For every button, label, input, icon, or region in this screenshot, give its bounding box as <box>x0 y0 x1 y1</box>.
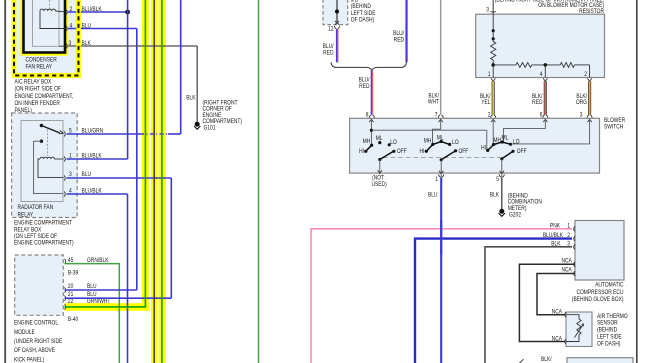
svg-text:6: 6 <box>540 112 543 119</box>
svg-text:COMPRESSOR ECU: COMPRESSOR ECU <box>576 289 623 296</box>
switch C bottom pin arrow <box>500 171 504 174</box>
resistor element vertical <box>492 39 494 42</box>
switch B arm pivot-OFF <box>441 151 455 160</box>
wire BLU vertical x136 to ECM pin 20 <box>136 29 138 291</box>
blower pin 8 wing <box>369 115 374 118</box>
wire BLU/RED from pin 12 <box>336 29 338 62</box>
svg-text:OF DASH): OF DASH) <box>351 17 374 24</box>
wire BLU vertical x171 to ECM pin 21 <box>170 178 172 298</box>
svg-text:PNK: PNK <box>550 223 560 230</box>
switch B contact HI <box>425 150 428 153</box>
blower pin 3 entry arrow <box>587 119 591 122</box>
engine control module box (dashed) <box>15 255 64 315</box>
svg-text:BLU/BLK: BLU/BLK <box>82 153 102 160</box>
svg-text:2: 2 <box>567 233 570 240</box>
svg-text:OF DASH, ABOVE: OF DASH, ABOVE <box>14 348 55 355</box>
svg-text:MODULE: MODULE <box>14 329 35 336</box>
wire BLU radiator pin 3 <box>67 177 172 179</box>
svg-text:SWITCH: SWITCH <box>604 124 623 131</box>
blower pin 2 entry arrow <box>491 119 495 122</box>
svg-text:OFF: OFF <box>517 149 527 156</box>
svg-text:RED: RED <box>359 84 369 91</box>
svg-text:SENSOR: SENSOR <box>597 320 618 327</box>
wire BLK/WHT to blower pin 7 <box>440 0 442 115</box>
svg-text:4: 4 <box>540 71 543 78</box>
switch C arm pivot-OFF <box>502 151 513 159</box>
radiator fan relay armature link (dashed) <box>47 130 49 157</box>
wire NCA lower <box>537 274 575 315</box>
svg-text:RED: RED <box>394 37 404 44</box>
svg-text:ENGINE COMPARTMENT: ENGINE COMPARTMENT <box>14 220 72 227</box>
svg-text:LO: LO <box>452 140 459 147</box>
switch C contact OFF <box>511 150 514 153</box>
svg-text:21: 21 <box>68 292 73 299</box>
blower feed drop to HI C <box>486 130 488 150</box>
svg-text:HI: HI <box>420 148 425 155</box>
radiator fan relay inner case <box>21 121 63 202</box>
svg-text:(BEHIND: (BEHIND <box>597 327 617 334</box>
blower feed bus <box>371 129 486 131</box>
svg-text:1: 1 <box>567 223 570 230</box>
resistor element R1 <box>516 63 532 68</box>
wire BLU/BLK vertical x127 to bottom <box>127 194 129 363</box>
automatic compressor ECU box <box>575 221 624 281</box>
switch C pivot <box>500 157 503 160</box>
condenser fan relay coil <box>40 9 56 11</box>
svg-text:BLU: BLU <box>82 23 92 30</box>
svg-text:HI: HI <box>481 145 486 152</box>
svg-text:5: 5 <box>496 177 499 184</box>
svg-text:BLK/: BLK/ <box>541 357 552 363</box>
svg-text:RESISTOR: RESISTOR <box>579 8 604 15</box>
switch B arm HI-MH <box>426 144 433 151</box>
wire BLK to ECU pin 3 <box>485 247 572 363</box>
clipped connector pin mark <box>519 359 524 363</box>
svg-text:OFF: OFF <box>459 149 469 156</box>
condenser fan relay pin 3 bracket <box>66 43 67 48</box>
svg-text:BLU/GRN: BLU/GRN <box>82 128 104 135</box>
blower switch box <box>350 118 600 173</box>
svg-text:LEFT SIDE: LEFT SIDE <box>597 334 622 341</box>
switch A pivot lead <box>379 160 381 174</box>
resistor node 4 <box>544 63 548 67</box>
ground G101 <box>195 122 200 127</box>
ECU NCA pin bracket 2 <box>574 271 575 276</box>
switch B contact MH <box>431 143 434 146</box>
page right border <box>636 0 638 363</box>
radiator fan relay coil return <box>38 159 64 177</box>
switch C pivot lead <box>501 159 503 173</box>
svg-text:AIR THERMO: AIR THERMO <box>597 313 628 320</box>
wire BLK/ORG <box>588 81 591 115</box>
ECU pin 2 bracket <box>574 236 575 241</box>
blower pin 7 entry arrow <box>439 119 443 122</box>
svg-text:BLU: BLU <box>428 192 438 199</box>
wire BLU/RED to blower pin 8 <box>371 71 373 115</box>
resistor pin 3 bracket <box>491 11 496 12</box>
svg-text:(UNDER RIGHT SIDE: (UNDER RIGHT SIDE <box>14 339 63 346</box>
svg-text:BLU/BLK: BLU/BLK <box>82 7 102 14</box>
svg-text:ENGINE COMPARTMENT,: ENGINE COMPARTMENT, <box>15 93 74 100</box>
radiator relay pin 4 bracket <box>64 191 65 196</box>
svg-text:FAN RELAY: FAN RELAY <box>26 64 53 71</box>
ECU pin 1 bracket <box>574 226 575 231</box>
switch B contact LO <box>448 143 451 146</box>
svg-text:1: 1 <box>488 71 491 78</box>
wire GRN bundle core <box>161 0 163 363</box>
ECM pin 21 bracket <box>65 296 66 301</box>
condenser fan relay coil lead to pin 2 <box>56 10 66 13</box>
svg-text:G202: G202 <box>509 212 521 219</box>
svg-text:RADIATOR FAN: RADIATOR FAN <box>18 205 54 212</box>
highlight band GRN/WHT vertical <box>142 0 149 311</box>
radiator fan relay lead to pin 4 <box>34 141 63 193</box>
svg-text:BLK: BLK <box>82 41 91 48</box>
svg-text:ON INNER FENDER: ON INNER FENDER <box>15 100 60 107</box>
sensor NCA pin bracket 1 <box>565 312 566 317</box>
svg-text:12: 12 <box>328 26 333 33</box>
A/C relay box dashed border overlay <box>14 0 79 76</box>
wire BLU ECM pin 21 <box>65 297 172 299</box>
switch A arm HI-MH <box>366 145 372 151</box>
svg-text:2: 2 <box>488 112 491 119</box>
ECM pin 22 bracket <box>65 304 66 309</box>
svg-text:NCA: NCA <box>561 267 572 274</box>
blower pin 8 entry arrow <box>369 119 373 122</box>
switch C contact LO <box>509 143 512 146</box>
wire GRN vertical x258 <box>258 0 260 363</box>
switch B pivot lead <box>440 160 442 173</box>
svg-text:G101: G101 <box>204 125 216 132</box>
svg-text:NCA: NCA <box>552 309 563 316</box>
wire to resistor pin 3 <box>492 0 494 14</box>
svg-text:NCA: NCA <box>552 336 563 343</box>
switch A contact MH <box>370 144 373 147</box>
blower pin 2 wing <box>491 115 496 118</box>
resistor thermal fuse contacts <box>492 29 495 32</box>
radiator relay pin 3 bracket <box>64 175 65 180</box>
svg-text:3: 3 <box>486 7 489 14</box>
ECU NCA pin bracket 1 <box>574 262 575 267</box>
junction block (dashed box) <box>323 0 348 25</box>
air thermo sensor box <box>566 312 592 347</box>
svg-text:3: 3 <box>580 112 583 119</box>
junction block internal wire <box>336 0 338 22</box>
highlight band GRN wire <box>159 0 166 363</box>
svg-text:ML: ML <box>437 135 444 142</box>
radiator fan relay switch arm <box>41 126 59 133</box>
svg-text:BLK: BLK <box>551 241 560 248</box>
wire BLK vertical to G101 <box>196 46 198 122</box>
svg-text:BLU/BLK: BLU/BLK <box>543 233 563 240</box>
svg-text:8: 8 <box>366 112 369 119</box>
resistor lead pin 1 <box>492 65 494 78</box>
svg-text:BLU: BLU <box>87 292 97 299</box>
switch A contact HI <box>364 150 367 153</box>
resistor pin 2 arrow <box>587 78 591 81</box>
page left border <box>4 0 6 363</box>
switch A contact OFF <box>392 150 395 153</box>
blower pin 7 wing <box>438 115 443 118</box>
switch C contact MH <box>492 143 495 146</box>
wire BLK condenser pin 3 <box>68 45 197 47</box>
blower pin 6 wing <box>543 115 548 118</box>
svg-text:ORG: ORG <box>576 100 587 107</box>
highlight band GRN/WHT horizontal <box>65 303 150 311</box>
svg-text:7: 7 <box>435 112 438 119</box>
junction block pin wing <box>334 26 339 29</box>
svg-text:BLK: BLK <box>490 192 499 199</box>
wire PNK <box>311 229 572 363</box>
wire BLK bundle core <box>153 0 155 363</box>
switch B pivot <box>440 158 443 161</box>
condenser fan relay armature link (dashed) <box>49 0 51 9</box>
wire BLU/RED right vertical <box>405 0 407 62</box>
svg-text:ENGINE COMPARTMENT): ENGINE COMPARTMENT) <box>14 240 74 247</box>
resistor element R2 <box>560 63 574 68</box>
mechanical link (dashed) <box>383 156 500 158</box>
junction block connector marks <box>335 21 339 25</box>
wire BLU/BLK to ECU pin 2 <box>415 239 572 363</box>
svg-text:1: 1 <box>435 177 438 184</box>
svg-text:CONDENSER: CONDENSER <box>26 57 57 64</box>
wire BLU blower pin 1 crossing segment <box>440 220 442 255</box>
svg-text:RED: RED <box>323 50 333 57</box>
resistor pin 1 arrow <box>491 78 495 81</box>
radiator relay pin 1 bracket <box>64 156 65 161</box>
svg-text:HI: HI <box>359 148 364 155</box>
ECU pin 3 bracket <box>574 244 575 249</box>
radiator fan relay coil <box>40 157 55 159</box>
svg-text:RELAY: RELAY <box>18 212 34 219</box>
ECM pin 45 bracket <box>65 259 66 264</box>
svg-text:ML: ML <box>502 135 509 142</box>
A/C relay box (yellow dashed box) <box>14 0 79 76</box>
wire BLU/BLK radiator pin 1 <box>67 158 128 160</box>
switch B contact OFF <box>454 149 457 152</box>
svg-text:USED): USED) <box>372 182 387 189</box>
switch C contact ML <box>501 140 504 143</box>
wire BLK/YEL <box>492 81 495 115</box>
wire BLU ECM pin 20 <box>65 289 137 291</box>
condenser fan relay (highlighted box) <box>24 0 66 53</box>
svg-text:WHT: WHT <box>428 99 440 106</box>
svg-text:MH: MH <box>493 138 501 145</box>
switch B contact ML <box>440 140 443 143</box>
wire BLK/RED <box>544 81 547 115</box>
wire GRN/WHT ECM pin 22 (highlighted) <box>65 0 146 307</box>
resistor pin 4 arrow <box>543 78 547 81</box>
wire BLK blower pin 5 <box>501 178 503 210</box>
blower pin 3 wing <box>587 115 592 118</box>
condenser fan relay coil lead to pin 4 <box>40 11 65 29</box>
resistor internal lead <box>492 14 494 29</box>
svg-text:LO: LO <box>390 139 397 146</box>
switch B bottom pin arrow <box>439 171 443 174</box>
wire GRN/BLK ECM pin 45 <box>65 264 120 363</box>
ground G202 <box>499 209 504 214</box>
svg-text:(ON RIGHT SIDE OF: (ON RIGHT SIDE OF <box>15 86 62 93</box>
switch A pivot <box>378 158 381 161</box>
resistor lead pin 4 <box>544 65 546 78</box>
svg-text:MH: MH <box>363 139 371 146</box>
wire BLU blower pin 1 <box>440 178 442 363</box>
wire BLU/BLK vertical to radiator pin 1 <box>127 0 129 159</box>
svg-text:MH: MH <box>424 138 432 145</box>
brace joining BLU/RED wires <box>331 62 407 70</box>
svg-text:ENGINE CONTROL: ENGINE CONTROL <box>14 320 58 327</box>
resistor node 1 <box>491 63 495 67</box>
svg-text:BLU: BLU <box>82 172 92 179</box>
svg-text:3: 3 <box>567 241 570 248</box>
svg-text:BLK: BLK <box>186 95 195 102</box>
blower node pin 8 <box>370 129 373 132</box>
blower motor resistor box <box>476 14 605 77</box>
svg-text:RELAY BOX: RELAY BOX <box>14 227 41 234</box>
sensor NCA pin bracket 2 <box>565 339 566 344</box>
switch A arm pivot-OFF <box>380 151 394 160</box>
svg-text:AUTOMATIC: AUTOMATIC <box>595 282 623 289</box>
wire BLU/GRN radiator pin 5 <box>67 133 141 135</box>
svg-text:A/C RELAY BOX: A/C RELAY BOX <box>15 79 52 86</box>
svg-text:B-39: B-39 <box>68 270 78 277</box>
blower pin 6 entry arrow <box>543 119 547 122</box>
svg-text:GRN/WHT: GRN/WHT <box>87 298 111 305</box>
svg-text:NCA: NCA <box>561 258 572 265</box>
wire BLU/BLK radiator pin 4 <box>67 193 128 195</box>
wire BLU/GRN vertical to top <box>180 0 182 134</box>
condenser fan relay inner case <box>33 0 60 46</box>
wire BLU condenser pin 4 <box>68 28 137 30</box>
radiator fan relay common contact <box>40 140 43 143</box>
svg-text:YEL: YEL <box>481 100 490 107</box>
resistor internal bus <box>493 64 516 66</box>
switch C arm HI-MH <box>488 145 494 151</box>
radiator relay pin 5 bracket <box>64 131 65 136</box>
condenser fan relay pin 4 bracket <box>66 26 67 31</box>
radiator fan relay contact <box>40 124 43 127</box>
highlight band BLK wire <box>151 0 157 363</box>
switch B arc MH-ML-LO <box>433 142 450 145</box>
switch A contact ML <box>378 141 381 144</box>
svg-text:BLU/BLK: BLU/BLK <box>82 188 102 195</box>
blower pin 5 wing <box>499 174 504 177</box>
junction block junction dot <box>335 9 339 13</box>
bottom-right box (clipped) <box>567 358 633 363</box>
svg-text:OF DASH): OF DASH) <box>597 341 620 348</box>
svg-text:METER): METER) <box>508 205 527 212</box>
engine compartment relay box (dashed) <box>12 113 78 218</box>
condenser fan relay pin 2 bracket <box>66 9 67 14</box>
svg-text:22: 22 <box>68 298 73 305</box>
svg-text:LO: LO <box>513 139 520 146</box>
svg-text:RED: RED <box>532 100 542 107</box>
thermistor element <box>566 315 579 319</box>
wire BLU/BLK condenser pin 2 <box>68 11 128 13</box>
svg-text:B-40: B-40 <box>68 316 78 323</box>
svg-text:(BEHIND GLOVE BOX): (BEHIND GLOVE BOX) <box>572 297 624 304</box>
wire NCA upper <box>519 264 575 341</box>
svg-text:ML: ML <box>376 136 383 143</box>
switch C contact HI <box>486 149 489 152</box>
svg-text:KICK PANEL): KICK PANEL) <box>14 357 44 363</box>
switch A bottom pin arrow <box>378 170 382 173</box>
switch C arc MH-ML-LO <box>494 142 511 145</box>
svg-text:OFF: OFF <box>397 149 407 156</box>
switch A contact LO <box>388 143 391 146</box>
resistor lead pin 2 <box>589 65 591 78</box>
condenser fan relay lead to pin 3 <box>59 45 65 47</box>
junction dot node BLU/BLK <box>125 10 130 15</box>
svg-text:2: 2 <box>584 71 587 78</box>
blower pin 1 wing <box>439 174 444 177</box>
ECM pin 20 bracket <box>65 287 66 292</box>
